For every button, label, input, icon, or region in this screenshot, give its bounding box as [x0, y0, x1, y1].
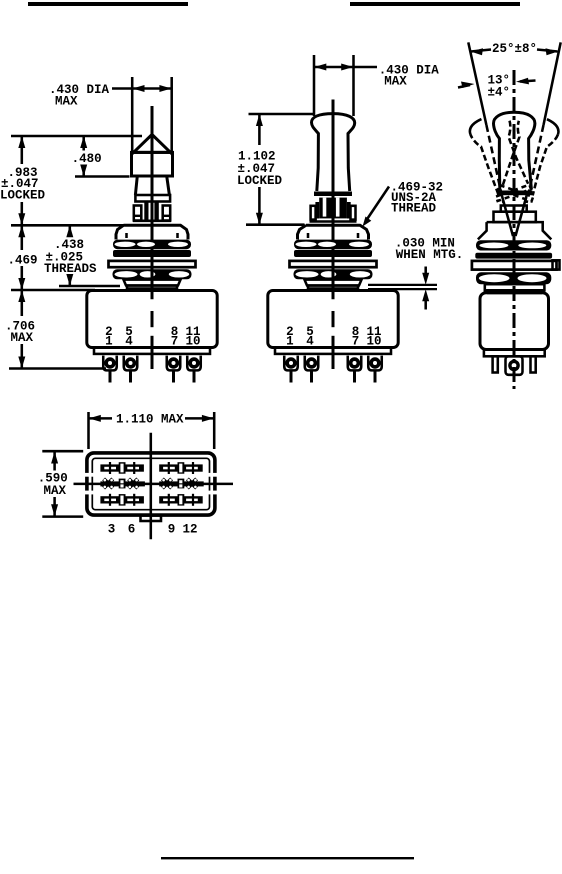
lug row middle (diagonal) [100, 477, 144, 489]
bushing bell [298, 225, 369, 239]
centerline fig1 [151, 106, 154, 299]
switch case [268, 291, 398, 348]
dim .438 threads [69, 225, 72, 237]
header rule right [350, 2, 520, 6]
lock washer [472, 261, 557, 270]
center lines [150, 433, 153, 540]
dim 1.110 MAX [87, 412, 90, 449]
svg-text:4: 4 [125, 335, 133, 349]
hex nut upper [294, 240, 372, 250]
throw axis dashed left [486, 125, 503, 203]
svg-text:WHEN MTG.: WHEN MTG. [396, 248, 464, 262]
locking side brackets [134, 206, 142, 221]
bushing bell [116, 225, 188, 239]
case (side) [480, 293, 549, 350]
case outline bottom view [87, 453, 215, 515]
svg-text:1: 1 [286, 335, 294, 349]
dark band [475, 253, 552, 259]
dim .480 [82, 136, 85, 151]
tilted lever ghost left [467, 110, 534, 202]
reference line case top [11, 289, 95, 292]
svg-text:MAX: MAX [55, 95, 78, 109]
pivot cross lines [502, 196, 513, 236]
right throw extension line [544, 42, 561, 125]
switch case [87, 291, 217, 348]
dim .430 DIA extension lines [131, 77, 134, 155]
svg-text:THREAD: THREAD [391, 202, 437, 216]
side key slots [84, 473, 95, 477]
lock washer [109, 261, 196, 267]
throw axis dashed right [527, 125, 544, 203]
lug row top [100, 462, 143, 474]
dim line [314, 66, 377, 69]
svg-text:LOCKED: LOCKED [237, 174, 283, 188]
bushing base [305, 280, 362, 286]
svg-text:1: 1 [105, 335, 113, 349]
svg-text:MAX: MAX [11, 331, 34, 345]
lock sleeve center mass [319, 198, 347, 219]
dim .590 MAX [42, 450, 83, 453]
centerline fig3 [513, 70, 516, 389]
reference line top of lever [11, 135, 142, 138]
lever tip triangle [134, 135, 171, 153]
reference line lever top [249, 113, 314, 116]
locking collar [135, 195, 170, 202]
base steps [485, 284, 545, 290]
locking collar [497, 191, 532, 196]
svg-text:3: 3 [108, 523, 116, 537]
hex nut upper [113, 240, 191, 250]
case flange [94, 348, 210, 354]
svg-text:LOCKED: LOCKED [0, 188, 46, 202]
svg-text:1.110 MAX: 1.110 MAX [116, 413, 184, 427]
centerline fig2 [332, 100, 335, 300]
svg-text:7: 7 [171, 335, 179, 349]
svg-text:25°±8°: 25°±8° [492, 42, 537, 56]
dim 1.102 LOCKED [258, 114, 261, 145]
dim .983 LOCKED [21, 136, 24, 164]
svg-text:MAX: MAX [44, 484, 67, 498]
terminal grid right pole group [159, 462, 204, 506]
bottom tab [141, 516, 162, 522]
terminals [284, 356, 382, 383]
bushing+case subassembly for fig2 [268, 225, 398, 382]
dim .430 DIA line with arrows [112, 87, 171, 90]
locking sleeve bars [144, 202, 148, 221]
dark band [113, 250, 191, 257]
bat lever outline [311, 114, 354, 191]
lock washer [290, 261, 377, 267]
dim 25 deg [471, 50, 491, 52]
header rule left [28, 2, 188, 6]
lock side boxes [311, 206, 316, 220]
svg-text:7: 7 [352, 335, 360, 349]
dark band [294, 250, 372, 257]
hex nut lower [294, 269, 373, 279]
bushing+case subassembly for fig1 [87, 225, 217, 382]
reference line bushing top [11, 224, 124, 227]
lever body rectangle [132, 152, 173, 176]
dim .430 DIA extension lines [313, 55, 316, 116]
centerline over washer [332, 257, 335, 292]
dim .706 MAX [21, 290, 24, 316]
svg-text:10: 10 [185, 335, 200, 349]
bushing base [124, 280, 181, 286]
svg-text:.469: .469 [8, 254, 38, 268]
thread ticks [307, 233, 310, 238]
upright lever [493, 112, 534, 189]
case flange [275, 348, 391, 354]
terminals [103, 356, 201, 383]
svg-text:9: 9 [168, 523, 176, 537]
lug row bottom [100, 494, 143, 506]
lock side walls [315, 202, 319, 219]
terminals side [493, 356, 498, 372]
svg-text:6: 6 [128, 523, 136, 537]
svg-text:12: 12 [182, 523, 197, 537]
footer rule [161, 857, 414, 859]
svg-text:.480: .480 [72, 152, 102, 166]
reference line case bottom [9, 367, 106, 370]
reference line bushing top [246, 223, 305, 226]
svg-text:±4°: ±4° [488, 86, 511, 100]
left throw extension line [468, 42, 486, 125]
locking collar [314, 192, 352, 197]
flange [484, 350, 545, 357]
dim .469 [21, 225, 24, 250]
gap dim lines [368, 284, 437, 286]
svg-text:4: 4 [306, 335, 314, 349]
svg-text:10: 10 [366, 335, 381, 349]
hex nut upper (side) [476, 240, 551, 250]
svg-text:THREADS: THREADS [44, 262, 97, 276]
hex nut lower [113, 269, 192, 279]
stepped bushing [501, 206, 527, 212]
svg-text:MAX: MAX [384, 75, 407, 89]
terminal grid left pole group [100, 462, 144, 506]
lever lower taper [135, 176, 137, 195]
tilted lever ghost right [495, 111, 562, 203]
hex nut lower (side) [476, 272, 551, 284]
